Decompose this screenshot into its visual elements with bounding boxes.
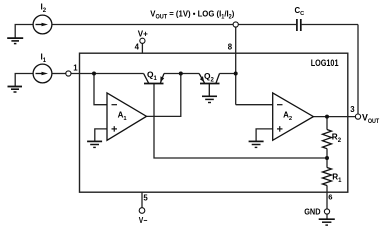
wire I2 ground stub <box>15 25 33 39</box>
ground (I2 source) <box>7 38 23 44</box>
transistor Q1 <box>144 74 164 84</box>
wire R1 top <box>326 158 328 168</box>
current source I2 <box>33 15 52 34</box>
svg-text:3: 3 <box>350 105 355 114</box>
wire pin 4 stub <box>141 43 143 53</box>
wire R2 bottom <box>326 149 328 158</box>
svg-text:R1: R1 <box>332 172 342 184</box>
svg-text:I1: I1 <box>41 53 47 64</box>
svg-text:1: 1 <box>73 63 78 72</box>
pin 8 terminal <box>233 22 238 27</box>
junction node A2 output / R2 <box>325 115 329 119</box>
wire pin 5 stub <box>141 192 143 208</box>
wire R2 top <box>326 117 328 130</box>
wire Q1 base down <box>154 84 327 159</box>
wire pin1 into box to Q1 collector <box>71 73 144 75</box>
pin 5 terminal <box>139 208 145 214</box>
svg-text:VOUT = (1V) • LOG (I1/I2): VOUT = (1V) • LOG (I1/I2) <box>150 9 234 21</box>
LOG101 box <box>80 53 348 192</box>
wire pin 6 ground stub <box>326 214 328 219</box>
transistor Q2 <box>199 74 219 97</box>
svg-text:VOUT: VOUT <box>362 113 379 126</box>
svg-text:CC: CC <box>295 6 305 17</box>
wire A1 output up to emitter node <box>146 74 181 117</box>
ground (Q2 base) <box>202 96 217 102</box>
svg-text:V+: V+ <box>138 30 148 39</box>
resistor R2 <box>323 130 332 149</box>
wire Q2 collector to pin8 node <box>220 73 236 75</box>
ground (A1 + input) <box>87 141 102 147</box>
current source I1 <box>33 64 52 83</box>
svg-text:R2: R2 <box>332 133 342 145</box>
svg-text:GND: GND <box>304 207 320 217</box>
svg-text:Q1: Q1 <box>147 70 158 82</box>
wire A2 noninverting to ground <box>256 129 272 142</box>
svg-text:LOG101: LOG101 <box>311 58 339 68</box>
ground (A2 + input) <box>249 141 264 147</box>
pin 6 terminal <box>324 209 329 214</box>
capacitor Cc <box>297 19 301 31</box>
junction node pin8 / Q2 collector <box>234 72 238 76</box>
op-amp A2 <box>273 93 314 140</box>
wire I1 ground stub <box>15 74 33 87</box>
wire Cc feedback vertical down to Vout <box>357 25 359 115</box>
ground (GND pin 6) <box>319 219 335 225</box>
op-amp A1 <box>107 93 147 140</box>
wire pin 8 to A2 inverting input <box>236 104 273 106</box>
wire Q1 emitter to Q2 emitter segment <box>164 73 199 75</box>
wire I2 output row (top) <box>52 24 296 26</box>
wire pin 8 vertical into box <box>235 27 237 105</box>
svg-text:Q2: Q2 <box>204 71 215 83</box>
wire A1 noninverting to ground <box>95 129 107 142</box>
wire I1 to pin 1 row <box>52 73 66 75</box>
junction node at A1 inverting input tap <box>92 72 96 76</box>
wire after capacitor to right edge <box>302 24 358 26</box>
pin 1 terminal <box>66 71 71 76</box>
wire node at A1 inverting tap <box>94 74 107 105</box>
ground (I1 source) <box>8 87 23 93</box>
svg-text:6: 6 <box>328 192 332 201</box>
resistor R1 <box>323 168 332 186</box>
wire R1 bottom to pin 6 <box>326 185 328 209</box>
svg-text:5: 5 <box>143 194 148 203</box>
svg-text:I2: I2 <box>41 3 47 14</box>
junction node emitters / A1 output <box>179 72 183 76</box>
svg-text:4: 4 <box>135 42 140 51</box>
pin 3 terminal Vout <box>355 114 360 119</box>
svg-text:V−: V− <box>139 216 148 225</box>
pin 4 terminal <box>140 38 145 43</box>
junction node R2/R1 divider <box>325 156 329 160</box>
svg-text:8: 8 <box>228 42 233 51</box>
wire A2 output to pin 3 <box>313 116 356 118</box>
